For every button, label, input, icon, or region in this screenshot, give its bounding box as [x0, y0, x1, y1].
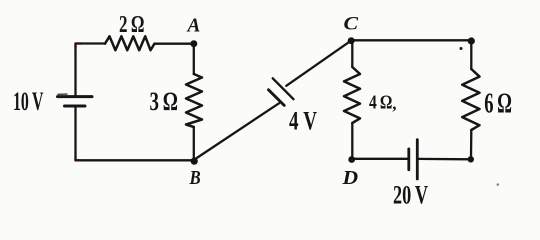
svg-text:4 V: 4 V [289, 107, 317, 136]
faint speck bottom right [497, 183, 500, 186]
svg-text:D: D [341, 166, 358, 189]
wire: 3ohm to node B [193, 127, 195, 160]
battery 4V plates [269, 78, 294, 105]
wire: node A down to 3ohm [193, 44, 195, 74]
svg-text:C: C [344, 14, 359, 34]
wire: 4ohm to node D [351, 123, 353, 159]
wire: bottom of left loop [76, 159, 194, 161]
wire: node C to top-right corner [351, 39, 471, 41]
svg-text:4 Ω: 4 Ω [369, 91, 392, 113]
resistor 3ohm zigzag [186, 74, 202, 127]
battery 20V plates [409, 140, 418, 179]
wire: diagonal B to 4V battery [195, 103, 280, 159]
node D junction dot [348, 156, 355, 163]
wire: 2ohm to node A [155, 43, 194, 45]
resistor 6ohm zigzag [462, 69, 479, 130]
svg-text:2 Ω: 2 Ω [119, 11, 144, 38]
node A junction dot [190, 40, 197, 47]
resistor 2ohm zigzag [105, 36, 155, 50]
wire: 4V battery to node C [286, 41, 351, 86]
node B junction dot [191, 158, 198, 165]
svg-text:6 Ω: 6 Ω [484, 87, 512, 119]
wire: 6ohm to bottom-right corner [470, 130, 473, 159]
svg-text:A: A [186, 15, 201, 36]
node C junction dot [348, 37, 355, 44]
svg-text:3 Ω: 3 Ω [150, 87, 178, 116]
top-right corner dot [468, 37, 475, 44]
wire: node C down to 4ohm [351, 41, 353, 67]
svg-text:B: B [189, 167, 201, 189]
wire: bottom-left corner up to battery 10V [74, 107, 76, 160]
svg-text:20 V: 20 V [393, 180, 428, 209]
resistor 4ohm zigzag [344, 67, 360, 123]
wire: top-right corner down to 6ohm [470, 40, 472, 69]
wire: 20V battery to bottom-right corner [419, 158, 472, 161]
wire: top-left corner to 2ohm resistor [76, 44, 106, 96]
svg-text:10 V: 10 V [13, 87, 44, 116]
scan ghost tick on 10V top plate [58, 93, 67, 95]
red tint bottom-left corner [76, 157, 81, 161]
red-tinted corner mark [76, 44, 83, 49]
battery 10V plates [58, 97, 93, 106]
wire: node D to 20V battery [352, 158, 407, 160]
stray speck [460, 47, 463, 50]
bottom-right corner dot [468, 156, 474, 162]
svg-text:,: , [392, 94, 396, 113]
